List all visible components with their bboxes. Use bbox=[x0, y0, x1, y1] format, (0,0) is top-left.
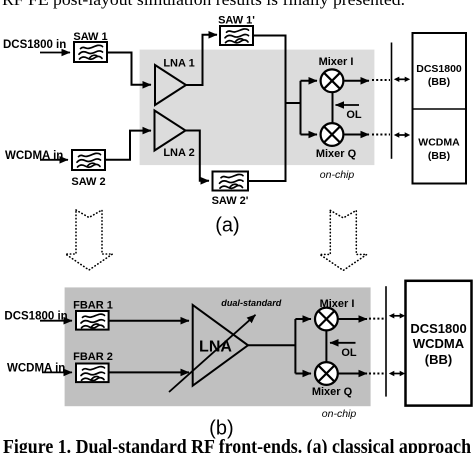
svg-text:SAW 1': SAW 1' bbox=[218, 15, 255, 27]
svg-text:FBAR 2: FBAR 2 bbox=[73, 351, 113, 363]
svg-text:SAW 1: SAW 1 bbox=[73, 31, 107, 43]
svg-text:Mixer I: Mixer I bbox=[319, 56, 354, 68]
svg-text:Mixer I: Mixer I bbox=[320, 298, 355, 310]
svg-text:(BB): (BB) bbox=[428, 150, 450, 162]
svg-text:OL: OL bbox=[341, 347, 357, 359]
svg-text:dual-standard: dual-standard bbox=[221, 298, 281, 308]
svg-text:on-chip: on-chip bbox=[322, 408, 357, 420]
svg-text:WCDMA: WCDMA bbox=[418, 137, 460, 149]
svg-text:DCS1800: DCS1800 bbox=[416, 63, 462, 75]
svg-text:DCS1800 in: DCS1800 in bbox=[3, 39, 66, 51]
svg-text:LNA 2: LNA 2 bbox=[163, 147, 194, 159]
svg-text:(a): (a) bbox=[215, 215, 239, 237]
svg-text:(BB): (BB) bbox=[425, 352, 452, 367]
svg-text:Mixer Q: Mixer Q bbox=[312, 386, 353, 398]
svg-text:(BB): (BB) bbox=[428, 76, 450, 88]
svg-text:RF FE post-layout simulation r: RF FE post-layout simulation results is … bbox=[2, 0, 405, 9]
svg-text:Mixer Q: Mixer Q bbox=[316, 148, 357, 160]
svg-text:on-chip: on-chip bbox=[320, 169, 355, 181]
svg-text:WCDMA: WCDMA bbox=[413, 336, 465, 351]
svg-text:SAW 2: SAW 2 bbox=[71, 176, 105, 188]
svg-text:LNA 1: LNA 1 bbox=[163, 58, 194, 70]
svg-text:OL: OL bbox=[346, 109, 362, 121]
svg-text:SAW 2': SAW 2' bbox=[212, 195, 249, 207]
svg-text:DCS1800: DCS1800 bbox=[410, 321, 466, 336]
svg-text:FBAR 1: FBAR 1 bbox=[73, 300, 113, 312]
svg-text:Figure 1. Dual-standard RF fro: Figure 1. Dual-standard RF front-ends. (… bbox=[3, 436, 471, 453]
